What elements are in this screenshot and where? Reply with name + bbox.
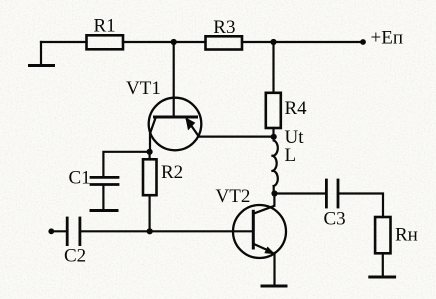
wire: VT1 emitter to node Ut (199, 136, 274, 138)
inductor L (272, 141, 278, 187)
node B junction dot (270, 39, 276, 45)
input terminal dot (48, 228, 54, 234)
svg-text:VT2: VT2 (216, 186, 251, 207)
wire: node E to C3 (275, 192, 327, 194)
VT2 emitter arrow (265, 247, 275, 254)
VT1 emitter arrow (186, 118, 195, 130)
transistor VT2 (233, 194, 286, 287)
node D junction dot (147, 228, 153, 234)
svg-text:C2: C2 (64, 246, 86, 267)
capacitor C1 (91, 177, 118, 184)
svg-text:VT1: VT1 (126, 78, 161, 99)
wire: node C to R2 (149, 152, 151, 160)
svg-text:+Еп: +Еп (371, 28, 404, 49)
svg-text:Rн: Rн (395, 225, 418, 246)
+Ep terminal dot (360, 39, 366, 45)
wire: node A down to VT1 base (173, 42, 175, 117)
wire: C3 to Rn (338, 194, 383, 218)
svg-text:L: L (285, 145, 297, 166)
ground (top left) (30, 42, 54, 66)
capacitor C3 (326, 180, 338, 207)
node A junction dot (171, 39, 177, 45)
ground (under Rn) (370, 276, 395, 279)
svg-text:C3: C3 (324, 209, 346, 230)
svg-text:R4: R4 (285, 98, 308, 119)
resistor R2 (143, 159, 157, 195)
node E junction dot (271, 190, 277, 196)
resistor R1 (87, 35, 124, 49)
node C junction dot (147, 149, 153, 155)
wire: Rn to ground (382, 253, 384, 276)
ground (under VT2) (262, 285, 286, 288)
resistor R3 (206, 36, 243, 49)
wire: R4 to node Ut (272, 128, 274, 137)
wire: C2 to VT2 base (80, 230, 253, 232)
ground (under C1) (91, 209, 117, 212)
resistor Rn (375, 217, 390, 253)
wire: ground to R1 (41, 41, 87, 43)
node Ut junction dot (271, 134, 277, 140)
transistor VT1 (149, 98, 202, 152)
svg-text:C1: C1 (69, 168, 91, 189)
capacitor C2 (67, 218, 80, 245)
svg-text:R1: R1 (94, 16, 116, 37)
svg-text:R3: R3 (213, 17, 235, 38)
wire: R3 to +Ep terminal (242, 41, 363, 43)
wire: L to node E (273, 186, 275, 194)
wire: VT1 collector node to C1 (103, 152, 149, 177)
wire: node B down to R4 (272, 42, 274, 93)
wire: input terminal to C2 (51, 230, 67, 232)
wire: R1 to node A (123, 41, 206, 43)
wire: R2 to node D (149, 195, 151, 231)
wire: C1 to ground (102, 185, 104, 210)
svg-text:R2: R2 (161, 162, 183, 183)
resistor R4 (266, 93, 281, 128)
